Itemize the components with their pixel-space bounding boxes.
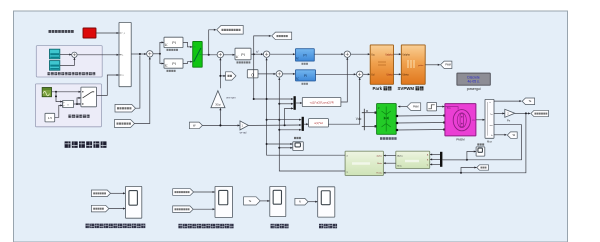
svg-text:th: th	[491, 134, 493, 137]
wire mux2 -> fcn ud	[304, 123, 308, 125]
subsystem panel 2: sine position reference	[35, 84, 101, 127]
svg-text:4e-05 s.: 4e-05 s.	[467, 80, 479, 84]
wire PI id -> decouple sum d	[316, 73, 356, 75]
svg-text:m: m	[473, 119, 475, 122]
wire rail tap -> iabc scope	[466, 152, 476, 161]
from tag Positionout (scope1)	[91, 190, 110, 197]
goto tag Is (currents)	[477, 165, 489, 170]
goto tag position feedback (wide)	[531, 110, 549, 116]
svg-text:PI: PI	[172, 62, 175, 66]
wire positionref tap	[136, 56, 140, 109]
wire iq sum -> PI iq	[270, 53, 295, 55]
wires PI -> manual switch	[183, 42, 192, 63]
from tag positionref (scope2)	[173, 189, 194, 196]
label scope1	[86, 224, 146, 229]
PI controller (incremental)	[164, 37, 183, 47]
wire PI iq -> decouple sum q	[314, 53, 343, 55]
goto tag wmout	[272, 32, 292, 40]
goto tag Positionout	[217, 26, 244, 35]
wire teal1 -> sum	[60, 54, 72, 56]
idiq scope	[293, 142, 304, 151]
svg-text:wm: wm	[490, 125, 493, 127]
svg-text:Vdc: Vdc	[356, 117, 362, 121]
svg-text:Alpha: Alpha	[397, 155, 403, 158]
wire bus p2 -> Pn gain	[494, 112, 504, 114]
wire constant -> math block	[55, 105, 63, 117]
inverse park block alphabeta->dq (pale green, flipped)	[345, 151, 383, 175]
wire id sum -> PI id	[283, 73, 295, 75]
svg-text:PI: PI	[303, 54, 306, 58]
wire fcn -> uq sum	[341, 58, 347, 102]
label PMSM	[456, 138, 465, 142]
wire mux1 -> fcn uq	[296, 102, 302, 104]
svg-text:Ualpha: Ualpha	[385, 54, 393, 56]
current mux (black bar)	[440, 152, 467, 167]
wire step -> motor Tm	[437, 106, 445, 108]
svg-text:Ubeta: Ubeta	[402, 73, 409, 76]
svg-text:Mux: Mux	[487, 139, 493, 143]
wires bridge ABC -> motor	[396, 114, 446, 131]
svg-text:Beta: Beta	[377, 162, 382, 165]
wire Pn -> goto position feedback + down rail	[515, 112, 530, 114]
goto tag N (rpm)	[226, 72, 237, 80]
wire tap -> N tag	[219, 75, 225, 77]
Park transform block (orange)	[370, 45, 393, 84]
from tag Te (scope3)	[244, 197, 261, 205]
wire tap -> wmout	[254, 36, 271, 54]
svg-text:PWM: PWM	[445, 65, 451, 67]
signal generator block (green icon)	[42, 88, 51, 97]
wire taps -> idiq scope	[266, 143, 293, 149]
speed PI block	[235, 48, 251, 60]
step block load torque	[427, 103, 437, 111]
svg-text:iq*: iq*	[256, 51, 259, 54]
wire gain -> mux2 w input	[248, 124, 301, 126]
wire position feedback -> sum bottom	[135, 57, 150, 123]
svg-text:PI: PI	[241, 53, 244, 57]
wire -> scope4	[308, 201, 317, 203]
svg-text:PI: PI	[304, 74, 307, 78]
fcn block ud decouple	[309, 119, 329, 127]
svg-text:SVPWM: SVPWM	[398, 86, 415, 91]
PI current controller id (blue)	[296, 70, 316, 81]
svg-text:30/pi: 30/pi	[215, 103, 221, 107]
svg-text:Theta: Theta	[376, 172, 382, 175]
label under PI1	[167, 49, 178, 51]
sum: ud + decoupling	[357, 71, 363, 77]
svg-text:wm-rpm: wm-rpm	[226, 96, 235, 100]
wire rail -> mux2 input1	[266, 119, 302, 121]
manual switch (green)	[193, 41, 203, 67]
SVPWM modulator block (orange)	[401, 45, 425, 84]
constant block: fold-mode select (red)	[83, 28, 96, 38]
label Vdc	[356, 117, 362, 121]
wire math -> switch input2/input3	[74, 98, 81, 105]
wire teal2 -> sum bottom	[60, 58, 75, 66]
wire speed fb -> sum (up from rpm gain)	[219, 58, 221, 88]
wire mux -> position sum	[131, 53, 146, 55]
wire id tap -> mux1 input2	[278, 103, 293, 105]
wires -> scope1	[109, 193, 125, 208]
mux1 (black bar)	[294, 96, 296, 110]
label scope3	[271, 224, 289, 229]
iabc scope	[476, 147, 485, 156]
multiport switch (sine ref)	[81, 87, 97, 107]
wire w up -> mux1 input3	[285, 108, 294, 125]
goto tag W	[507, 132, 517, 138]
powergui block	[457, 73, 490, 85]
wire sum -> PI branch	[153, 42, 163, 63]
universal bridge inverter (green)	[377, 104, 397, 135]
svg-text:Tm: Tm	[447, 107, 450, 110]
goto tag positionref	[115, 104, 136, 112]
svg-text:PMSM: PMSM	[456, 138, 465, 142]
wires -> scope2	[193, 192, 214, 209]
from tag W (speed)	[189, 122, 202, 129]
svg-text:N: N	[299, 201, 301, 204]
gain Pn	[505, 109, 515, 122]
wire W rail up into gain	[219, 108, 221, 126]
multiport switch (reference selector, tall)	[119, 22, 131, 86]
wire uq sum -> Park	[351, 53, 370, 55]
wire siggen -> switch input1 + branch down	[52, 91, 81, 102]
label wm-rpm	[226, 96, 235, 100]
label pi-id	[302, 83, 308, 85]
svg-text:u(1)*Ld: u(1)*Ld	[314, 121, 323, 125]
label powergui	[467, 87, 481, 91]
wire bus p1 -> goto Te	[494, 100, 521, 102]
PI current controller iq (blue)	[296, 49, 315, 61]
id feedback rail (left+up to iq sum)	[267, 58, 346, 155]
wires Park -> SVPWM	[394, 54, 401, 74]
sum: speed error	[217, 51, 223, 57]
idiq scope label	[294, 137, 301, 139]
label: sine position text	[68, 115, 89, 118]
repeating sequence block 2 (teal)	[50, 61, 60, 71]
DC voltage source	[362, 109, 377, 130]
svg-text:wr-rad: wr-rad	[240, 131, 247, 134]
wires clarke -> ipark (alpha beta)	[384, 156, 396, 164]
wire bus p3 -> speed rail	[443, 125, 522, 160]
wires mux <- clarke abc ports	[430, 155, 440, 165]
sum: position error	[147, 51, 153, 57]
bus selector	[485, 99, 494, 138]
gain triangle rad->rpm (pointing up)	[211, 91, 225, 108]
PMSM motor block (magenta)	[445, 104, 476, 136]
svg-text:1.5: 1.5	[48, 116, 53, 120]
sum: iq error	[263, 51, 269, 57]
constant block (phase)	[45, 113, 55, 122]
wire iq tap -> mux2 input3	[278, 129, 301, 131]
label under speed PI	[237, 61, 251, 63]
label: 0.75/1.5s fold text	[48, 72, 96, 75]
svg-text:Beta: Beta	[397, 164, 402, 167]
scope4 speed	[318, 187, 335, 217]
scope2 position ref vs actual	[215, 186, 233, 217]
wire switch -> speed PI, tap to goto	[202, 30, 234, 56]
iabc scope label	[477, 143, 484, 145]
constant 0 (id ref)	[247, 70, 258, 78]
clarke transform block abc->alphabeta (pale green, flipped)	[396, 151, 430, 168]
from tag positionfeedback (scope2)	[173, 206, 194, 213]
subsystem panel 1: position fold reference	[36, 46, 102, 77]
label SVPWM tiaozhi	[398, 86, 424, 91]
svg-text:pulse: pulse	[418, 65, 424, 67]
goto tag PWM	[441, 61, 452, 68]
label pi-iq	[302, 63, 308, 65]
svg-text:alpha: alpha	[376, 156, 382, 158]
label Park bianhuan	[373, 86, 392, 91]
label: mode-select text	[49, 30, 74, 33]
wire -> scope3	[260, 200, 269, 202]
label inverter	[380, 137, 397, 140]
label under bus selector	[487, 139, 493, 143]
wire ud sum -> Park	[363, 73, 370, 75]
sum: id error	[276, 71, 282, 77]
wire W -> gain wr	[202, 124, 239, 126]
svg-text:Ubeta: Ubeta	[386, 73, 393, 76]
label scope4	[319, 224, 337, 229]
svg-text:PI: PI	[172, 41, 175, 45]
svg-text:Ualpha: Ualpha	[402, 54, 410, 56]
svg-text:is: is	[489, 102, 490, 104]
sum: fold reference	[72, 52, 77, 57]
fcn block uq decouple	[302, 98, 341, 107]
svg-text:Park: Park	[373, 86, 383, 91]
section title: position reference part	[65, 141, 107, 147]
wire 0 -> current sum d	[258, 73, 276, 75]
svg-text:Pn: Pn	[507, 118, 511, 122]
wire speed PI -> current sum q, tap wmout	[251, 51, 263, 56]
label scope2	[178, 224, 233, 229]
iq feedback rail (left+up to id sum)	[279, 78, 345, 171]
wire fcn -> ud sum	[328, 78, 359, 124]
math block (sine calc)	[63, 100, 74, 107]
gain wr (right)	[240, 121, 249, 134]
from tag position feedback	[115, 120, 135, 128]
svg-text:-u(1)*u(3)*Lq+u(2)*R: -u(1)*u(3)*Lq+u(2)*R	[310, 101, 334, 105]
sum: uq + decoupling	[344, 51, 350, 57]
svg-text:powergui: powergui	[467, 87, 481, 91]
wire red const -> switch input1	[96, 32, 119, 34]
PI controller (positional)	[164, 59, 183, 68]
svg-text:Tm: Tm	[490, 114, 493, 116]
wire bus p4 -> goto W	[494, 134, 507, 136]
from tag N (scope4)	[295, 198, 308, 205]
from tag PWM (flipped)	[407, 103, 421, 111]
wire theta rail tap -> goto Is	[460, 168, 476, 174]
theta rail from Pn down and left	[383, 113, 526, 172]
wire wmout rail down -> mux1 input1	[253, 54, 293, 100]
wire motor m -> bus selector	[476, 119, 485, 121]
wire sum -> switch input2	[77, 54, 118, 56]
repeating sequence block 1 (teal)	[50, 49, 60, 59]
label under PI2	[167, 70, 176, 72]
goto tag Te	[522, 98, 534, 105]
scope3 torque	[270, 186, 286, 216]
from tag wmout (scope1)	[91, 205, 109, 212]
scope1 PI outputs	[126, 186, 142, 218]
wire SVPWM -> goto PWM	[425, 64, 440, 66]
svg-text:PWM: PWM	[413, 106, 419, 108]
mux2 (black bar)	[302, 117, 304, 131]
wire PWM -> bridge gate	[398, 106, 407, 108]
wire switch -> tall mux input3	[97, 75, 119, 95]
